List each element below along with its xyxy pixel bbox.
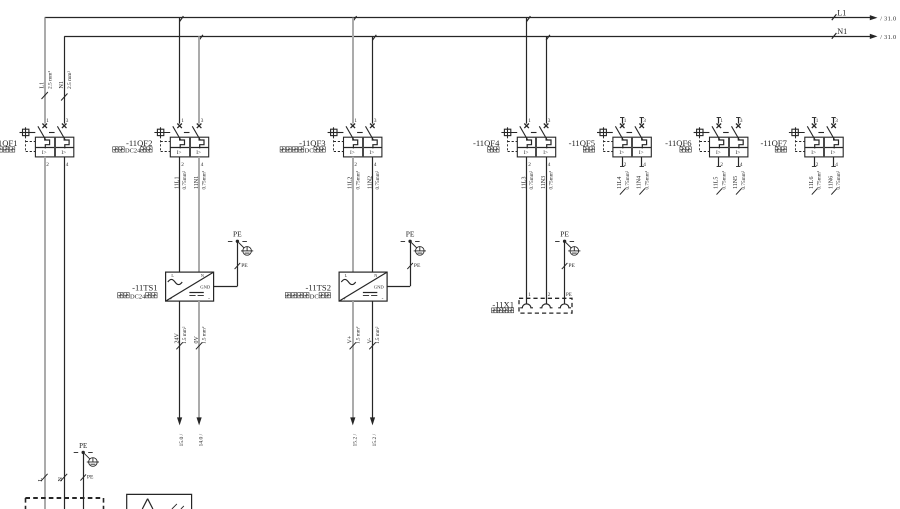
incoming terminal dashed box — [25, 498, 103, 509]
wire label 11L2 0.75mm2 — [348, 170, 362, 189]
svg-text:I>: I> — [350, 150, 355, 156]
wire label 11L1 0.75mm2 — [175, 170, 189, 189]
svg-text:PE: PE — [568, 263, 575, 269]
wire 11N2 QF3 to TS2 — [372, 157, 374, 272]
svg-text:I>: I> — [543, 150, 548, 156]
svg-text:2: 2 — [354, 162, 357, 168]
svg-text:-11TS2: -11TS2 — [306, 283, 331, 293]
circuit breaker QF5 — [597, 118, 651, 168]
svg-text:15.2 /: 15.2 / — [352, 433, 358, 446]
svg-text:3: 3 — [201, 118, 204, 124]
bus wire N1 — [64, 36, 870, 38]
label QF2 Chinese diangui DC24 dianyuan — [113, 147, 152, 155]
svg-text:L: L — [345, 273, 348, 278]
svg-text:0.75mm²: 0.75mm² — [644, 170, 650, 189]
label -11TS2 — [306, 283, 331, 293]
label -11X1 — [492, 299, 514, 309]
wire label 11N5 0.75mm2 with slash — [733, 170, 747, 194]
cross reference 15.2 under V+ arrow — [352, 433, 358, 446]
svg-text:11N5: 11N5 — [733, 176, 739, 189]
svg-text:1.5 mm²: 1.5 mm² — [202, 326, 208, 344]
power supply unit TS2 — [339, 272, 387, 302]
cross reference 15.0 under 24V arrow — [179, 433, 185, 446]
svg-text:/ 31.0: / 31.0 — [880, 15, 896, 22]
N1 bus arrow to /31.0 — [870, 34, 897, 41]
wire label 11L3 0.75mm2 — [522, 170, 536, 189]
TS1 24V output wire with arrow — [177, 301, 182, 425]
svg-text:GND: GND — [374, 285, 385, 290]
QF7 bottom stub wires — [812, 157, 836, 167]
TS1 PE earth connection wire — [214, 241, 238, 286]
svg-text:N: N — [201, 273, 204, 278]
circuit breaker QF1 — [20, 118, 74, 168]
wire 11L2 QF3 to TS2 (grey) — [352, 157, 354, 272]
svg-text:DC24: DC24 — [125, 148, 141, 155]
bus wire L1 — [45, 17, 871, 19]
svg-text:1.5 mm²: 1.5 mm² — [355, 326, 361, 344]
power supply unit TS1 — [166, 272, 214, 302]
svg-text:2: 2 — [528, 162, 531, 168]
circuit breaker QF2 — [154, 118, 208, 168]
N1 bus break slash and label — [832, 27, 847, 39]
svg-text:2: 2 — [46, 162, 49, 168]
svg-text:PE: PE — [560, 230, 569, 239]
svg-text:PE: PE — [414, 263, 421, 269]
label -11QF4 — [473, 138, 500, 148]
svg-text:DC: DC — [310, 293, 319, 300]
svg-text:0.75mm²: 0.75mm² — [836, 170, 842, 189]
svg-text:3: 3 — [643, 118, 646, 124]
label QF1 Chinese dianyuan kaiguan — [0, 147, 15, 152]
label -11QF2 — [126, 138, 152, 148]
TS2 V- output wire with arrow — [370, 301, 375, 425]
svg-text:I>: I> — [42, 150, 47, 156]
wire label 0V 1.5mm2 — [194, 326, 208, 349]
svg-text:I>: I> — [831, 150, 836, 156]
svg-text:PE: PE — [566, 293, 572, 298]
svg-text:4: 4 — [548, 162, 551, 168]
svg-text:0V: 0V — [194, 336, 200, 344]
svg-text:1: 1 — [181, 118, 184, 124]
svg-text:11L1: 11L1 — [175, 177, 181, 189]
svg-text:I>: I> — [716, 150, 721, 156]
junction tick N1 to QF3 — [373, 35, 377, 40]
svg-text:+: + — [170, 296, 173, 301]
svg-text:0.75mm²: 0.75mm² — [375, 170, 381, 189]
svg-text:N1: N1 — [59, 81, 65, 88]
svg-text:/ 31.0: / 31.0 — [880, 34, 896, 41]
socket X1 pin labels 1 2 PE — [528, 293, 572, 298]
TS2 PE earth connection wire — [387, 241, 410, 286]
wire 11N1 QF2 to TS1 (grey) — [198, 157, 200, 272]
svg-text:3: 3 — [740, 118, 743, 124]
svg-text:11N4: 11N4 — [637, 176, 643, 189]
svg-text:L1: L1 — [837, 8, 846, 17]
label QF5 Chinese beiyong (spare) — [583, 147, 594, 152]
junction tick N1 to QF4 — [546, 35, 550, 40]
svg-text:I>: I> — [196, 150, 201, 156]
label TS1 Chinese diangui DC24 dianyuan — [118, 293, 157, 301]
svg-text:I>: I> — [811, 150, 816, 156]
svg-text:14.0 /: 14.0 / — [199, 433, 205, 446]
label -11QF6 — [665, 138, 692, 148]
svg-text:11L4: 11L4 — [617, 177, 623, 189]
svg-text:15.2 /: 15.2 / — [372, 433, 378, 446]
label QF7 Chinese beiyong (spare) — [775, 147, 786, 152]
wire 11L1 QF2 to TS1 — [179, 157, 181, 272]
junction tick L1 to QF4 — [527, 16, 531, 21]
svg-text:11L5: 11L5 — [714, 177, 720, 189]
svg-text:PE: PE — [406, 230, 415, 239]
label TS2 Chinese bujin dianji DC dianyuan — [285, 293, 330, 301]
wire label V+ 1.5mm2 — [348, 326, 362, 349]
svg-text:L: L — [38, 478, 44, 482]
svg-text:0.75mm²: 0.75mm² — [817, 170, 823, 189]
label X1 Chinese dianyuan chazuo — [492, 308, 514, 313]
svg-text:15.0 /: 15.0 / — [179, 433, 185, 446]
svg-text:1: 1 — [46, 118, 49, 124]
PE wire slash label bottom — [80, 474, 94, 480]
wire N1 drop to QF4 — [546, 36, 548, 123]
svg-text:L1: L1 — [40, 82, 46, 89]
wire slash label L bottom — [38, 474, 47, 482]
svg-text:I>: I> — [639, 150, 644, 156]
wire label 11L5 0.75mm2 with slash — [714, 170, 728, 194]
label QF6 Chinese beiyong (spare) — [680, 147, 691, 152]
TS1 0V output wire with arrow (grey) — [197, 301, 202, 425]
wire label 11N1 0.75mm2 — [194, 170, 208, 189]
svg-text:L: L — [171, 273, 174, 278]
svg-text:1.5 mm²: 1.5 mm² — [182, 326, 188, 344]
label -11TS1 — [132, 283, 157, 293]
QF7 top stub wires — [812, 118, 836, 124]
QF5 bottom stub wires — [620, 157, 644, 167]
svg-text:N1: N1 — [837, 27, 847, 36]
TS2 V+ output wire with arrow (grey) — [350, 301, 355, 425]
circuit breaker QF7 — [789, 118, 843, 168]
PE wire slash label at TS1 — [235, 263, 249, 269]
svg-text:PE: PE — [241, 263, 248, 269]
svg-text:11L2: 11L2 — [348, 177, 354, 189]
svg-text:0.75mm²: 0.75mm² — [741, 170, 747, 189]
cross reference 15.2 under V- arrow — [372, 433, 378, 446]
PE wire down to X1 socket — [564, 241, 566, 303]
QF1 output wire N to bottom — [64, 157, 66, 509]
svg-text:1: 1 — [354, 118, 357, 124]
L1 bus arrow to /31.0 — [870, 15, 897, 22]
wire label 11N6 0.75mm2 with slash — [829, 170, 843, 194]
PE wire slash label at X1 — [562, 263, 576, 269]
svg-text:0.75mm²: 0.75mm² — [625, 170, 631, 189]
svg-text:I>: I> — [370, 150, 375, 156]
svg-text:1: 1 — [624, 118, 627, 124]
svg-text:1.5 mm²: 1.5 mm² — [375, 326, 381, 344]
wire label L1 2.5mm2 — [40, 71, 54, 99]
label -11QF1 — [0, 138, 18, 148]
wire label V- 1.5mm2 — [367, 326, 381, 349]
QF6 top stub wires — [717, 118, 741, 124]
svg-text:PE: PE — [233, 230, 242, 239]
svg-text:3: 3 — [548, 118, 551, 124]
svg-text:V+: V+ — [348, 335, 354, 343]
wire label 11L4 0.75mm2 with slash — [617, 170, 631, 194]
svg-text:2.5 mm²: 2.5 mm² — [67, 71, 73, 89]
cross reference 14.0 under 0V arrow — [199, 433, 205, 446]
wire label 11N4 0.75mm2 with slash — [637, 170, 651, 194]
svg-text:DC24: DC24 — [130, 293, 146, 300]
wire label 24V 1.5mm2 — [175, 326, 189, 349]
svg-text:11N1: 11N1 — [194, 176, 200, 189]
svg-text:0.75mm²: 0.75mm² — [202, 170, 208, 189]
wire 11N3 QF4 to X1 pin2 — [546, 157, 548, 304]
wire L1 drop to QF1 (grey) — [44, 18, 46, 124]
svg-text:1: 1 — [528, 118, 531, 124]
QF5 top stub wires — [620, 118, 644, 124]
svg-text:+: + — [343, 296, 346, 301]
svg-text:11N2: 11N2 — [367, 176, 373, 189]
svg-text:I>: I> — [619, 150, 624, 156]
label QF3 Chinese bujin dianji DC dianyuan — [280, 147, 325, 155]
svg-text:11L3: 11L3 — [522, 177, 528, 189]
svg-text:2: 2 — [181, 162, 184, 168]
svg-text:I>: I> — [736, 150, 741, 156]
svg-text:-: - — [382, 296, 384, 302]
svg-text:11N6: 11N6 — [829, 176, 835, 189]
svg-text:11L6: 11L6 — [809, 177, 815, 189]
L1 bus break slash and label — [832, 8, 847, 20]
label -11QF7 — [760, 138, 787, 148]
svg-text:2.5 mm²: 2.5 mm² — [47, 71, 53, 89]
svg-text:11N3: 11N3 — [541, 176, 547, 189]
svg-text:1: 1 — [816, 118, 819, 124]
svg-text:4: 4 — [66, 162, 69, 168]
PE node above TS2 — [401, 230, 426, 256]
svg-text:-11TS1: -11TS1 — [132, 283, 157, 293]
wire 11L3 QF4 to X1 pin1 — [526, 157, 528, 304]
PE wire from bottom node into terminal box — [83, 452, 85, 509]
label -11QF3 — [299, 138, 325, 148]
wire label N1 2.5mm2 — [59, 71, 73, 101]
svg-text:0.75mm²: 0.75mm² — [355, 170, 361, 189]
wire N1 drop to QF2 (grey) — [198, 36, 200, 123]
svg-text:GND: GND — [200, 285, 211, 290]
socket X1 dashed outline — [519, 298, 572, 313]
PE node bottom left — [74, 442, 99, 467]
QF1 output wire L (grey) to bottom — [44, 157, 46, 509]
svg-text:4: 4 — [201, 162, 204, 168]
circuit breaker QF6 — [694, 118, 748, 168]
svg-text:3: 3 — [66, 118, 69, 124]
svg-text:3: 3 — [374, 118, 377, 124]
svg-text:I>: I> — [61, 150, 66, 156]
svg-text:3: 3 — [835, 118, 838, 124]
svg-text:0.75mm²: 0.75mm² — [721, 170, 727, 189]
junction tick N1 to QF2 — [199, 35, 203, 40]
svg-text:V-: V- — [367, 338, 373, 344]
circuit breaker QF3 — [328, 118, 382, 168]
wire L1 drop to QF3 (grey) — [352, 18, 354, 124]
svg-text:N: N — [374, 273, 377, 278]
svg-text:0.75mm²: 0.75mm² — [529, 170, 535, 189]
svg-text:PE: PE — [87, 475, 94, 481]
wire N1 drop to QF3 — [372, 36, 374, 123]
PE node above X1 — [555, 230, 580, 256]
wire slash label N bottom — [58, 474, 67, 482]
wire label 11L6 0.75mm2 with slash — [809, 170, 823, 194]
wire L1 drop to QF4 — [526, 18, 528, 124]
svg-text:DC: DC — [305, 148, 314, 155]
svg-text:N: N — [58, 477, 64, 482]
svg-text:0.75mm²: 0.75mm² — [182, 170, 188, 189]
PE wire slash label at TS2 — [407, 263, 421, 269]
label QF4 Chinese beiyong (spare) — [488, 147, 499, 152]
svg-text:0.75mm²: 0.75mm² — [549, 170, 555, 189]
svg-text:I>: I> — [177, 150, 182, 156]
circuit breaker QF4 — [501, 118, 555, 168]
svg-text:-: - — [208, 296, 210, 302]
junction tick L1 to QF2 — [180, 16, 184, 21]
svg-text:24V: 24V — [175, 333, 181, 344]
QF6 bottom stub wires — [717, 157, 741, 167]
wire label 11N2 0.75mm2 — [367, 170, 381, 189]
svg-text:4: 4 — [374, 162, 377, 168]
label -11QF5 — [569, 138, 595, 148]
PE node above TS1 — [228, 230, 253, 256]
svg-text:PE: PE — [79, 442, 87, 450]
wire N1 drop to QF1 — [64, 36, 66, 123]
junction tick L1 to QF3 — [353, 16, 357, 21]
wire label 11N3 0.75mm2 — [541, 170, 555, 189]
socket X1 contacts — [520, 304, 571, 308]
line filter box with triangle symbol — [127, 494, 192, 509]
wire L1 drop to QF2 — [179, 18, 181, 124]
svg-text:I>: I> — [524, 150, 529, 156]
svg-text:1: 1 — [720, 118, 723, 124]
